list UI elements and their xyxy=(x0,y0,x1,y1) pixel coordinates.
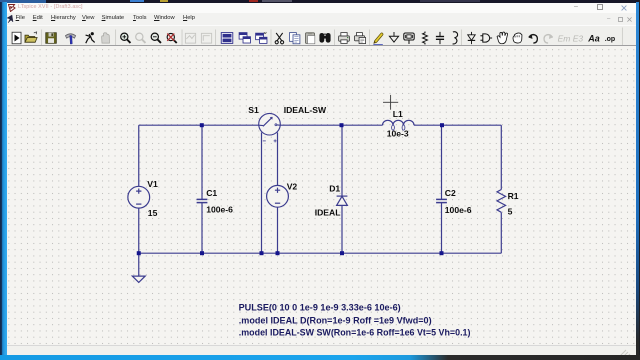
inductor L1 xyxy=(382,121,413,131)
wire bottom rail: C2 bottom to R1 bottom corner xyxy=(441,252,501,254)
wire bottom rail: ground node to C1 bottom xyxy=(139,252,202,254)
svg-text:5: 5 xyxy=(508,207,513,217)
wire bottom rail: D1 anode to C2 bottom xyxy=(342,252,441,254)
svg-text:D1: D1 xyxy=(329,184,340,194)
svg-text:10e-3: 10e-3 xyxy=(387,129,409,139)
ground symbol xyxy=(132,276,145,282)
wire: C1 top lead xyxy=(201,125,203,199)
junction node: D1 bottom xyxy=(340,251,344,255)
wire bottom rail: S1 control return to V2 bottom xyxy=(262,252,278,254)
capacitor C1 xyxy=(197,200,208,203)
junction node: C1 top xyxy=(200,123,204,127)
voltage source V1 xyxy=(128,187,150,209)
svg-text:100e-6: 100e-6 xyxy=(206,205,233,215)
wire top rail: V1 top to C1 top node xyxy=(139,124,202,126)
svg-text:Aa: Aa xyxy=(587,33,600,43)
wire top rail: C1 node through S1 to D1 top node xyxy=(202,124,342,126)
wire: R1 top lead xyxy=(500,125,502,189)
capacitor C2 xyxy=(436,200,447,203)
svg-text:15: 15 xyxy=(148,208,158,218)
junction node: ground xyxy=(137,251,141,255)
wire: V2 bottom lead xyxy=(277,207,279,253)
wire bottom rail: V2 bottom to D1 anode xyxy=(278,252,342,254)
svg-text:Em: Em xyxy=(558,33,571,43)
svg-text:C1: C1 xyxy=(206,188,217,198)
S1 control plus mark xyxy=(274,140,277,143)
svg-text:C2: C2 xyxy=(445,188,456,198)
wire: C1 bottom lead xyxy=(201,203,203,254)
svg-text:PULSE(0 10 0 1e-9 1e-9 3.33e-6: PULSE(0 10 0 1e-9 1e-9 3.33e-6 10e-6) xyxy=(239,303,401,313)
svg-text:.op: .op xyxy=(605,35,615,42)
switch S1 xyxy=(259,114,281,136)
wire: S1 minus control down to bottom rail xyxy=(261,133,263,254)
svg-text:.model IDEAL-SW SW(Ron=1e-6 Ro: .model IDEAL-SW SW(Ron=1e-6 Roff=1e6 Vt=… xyxy=(239,328,471,338)
svg-text:S1: S1 xyxy=(248,105,259,115)
junction node: V2 bottom xyxy=(276,251,280,255)
wire: D1 anode lead xyxy=(341,206,343,254)
junction node: C2 bottom xyxy=(439,251,443,255)
svg-text:V1: V1 xyxy=(147,179,158,189)
wire: C2 bottom lead xyxy=(440,203,442,254)
junction node: S1 control return xyxy=(260,251,264,255)
wire top rail: L1 right lead to C2 top node xyxy=(414,124,442,126)
wire bottom rail: C1 bottom to S1 control return xyxy=(202,252,261,254)
svg-text:E3: E3 xyxy=(573,33,584,43)
wire: V1 bottom lead xyxy=(138,208,140,253)
svg-text:R1: R1 xyxy=(508,191,519,201)
svg-text:.model IDEAL D(Ron=1e-9 Roff =: .model IDEAL D(Ron=1e-9 Roff =1e9 Vfwd=0… xyxy=(239,316,432,326)
resistor R1 xyxy=(497,190,506,213)
svg-text:L1: L1 xyxy=(393,109,403,119)
mouse crosshair cursor xyxy=(383,95,398,110)
junction node: D1 top xyxy=(339,123,343,127)
S1 control minus mark xyxy=(263,140,266,142)
junction node: C1 bottom xyxy=(200,251,204,255)
svg-text:V2: V2 xyxy=(287,182,298,192)
svg-text:IDEAL-SW: IDEAL-SW xyxy=(284,105,327,115)
wire top rail: D1 node to L1 left lead xyxy=(341,124,382,126)
wire: S1 plus control to V2 top xyxy=(277,133,279,186)
junction node: C2 top xyxy=(440,123,444,127)
wire: C2 top lead xyxy=(440,125,442,199)
wire: D1 cathode lead xyxy=(341,125,343,196)
wire top rail: C2 node to R1 top corner xyxy=(442,124,501,126)
diode D1 xyxy=(337,196,348,205)
svg-text:100e-6: 100e-6 xyxy=(445,205,472,215)
svg-text:IDEAL: IDEAL xyxy=(315,208,341,218)
wire: ground stub xyxy=(138,253,140,276)
voltage source V2 xyxy=(267,186,289,208)
wire: R1 bottom lead xyxy=(500,213,502,254)
wire: V1 top lead xyxy=(138,125,140,186)
